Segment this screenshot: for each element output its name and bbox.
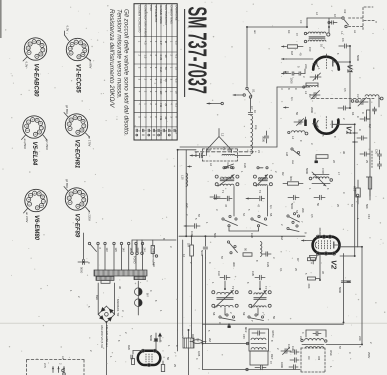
capacitor C4	[297, 66, 306, 75]
wire main AVC bus	[179, 235, 305, 237]
svg-text:47: 47	[224, 204, 228, 208]
svg-text:C2: C2	[343, 10, 347, 14]
wire V2 top pin	[320, 228, 344, 323]
capacitor C9	[338, 106, 350, 110]
power transformer secondary b	[134, 276, 146, 279]
svg-text:220: 220	[358, 336, 362, 341]
svg-text:g2 85V: g2 85V	[65, 179, 69, 188]
svg-text:5000: 5000	[290, 203, 294, 210]
svg-text:25: 25	[173, 364, 177, 367]
svg-text:0,1: 0,1	[175, 103, 179, 107]
V2 anode	[334, 242, 340, 249]
V4 pin circles	[142, 349, 157, 366]
table symbol row	[136, 129, 175, 136]
capacitor C33	[338, 281, 351, 294]
resistor R15 fuse	[353, 180, 361, 204]
svg-text:TM-220 V/50 Hz: TM-220 V/50 Hz	[105, 325, 109, 347]
svg-text:6 P: 6 P	[159, 41, 163, 45]
wire right vertical x356 bottom	[0, 0, 1, 1]
wire rod to choke	[235, 155, 251, 157]
arrow aux input	[207, 102, 223, 104]
svg-text:5000: 5000	[356, 55, 360, 61]
svg-text:50: 50	[175, 91, 179, 94]
svg-text:ant: ant	[253, 30, 257, 34]
detector lower box	[250, 351, 268, 365]
fuse resistor	[190, 340, 206, 344]
svg-text:140: 140	[122, 248, 126, 253]
svg-text:V1-ECC85: V1-ECC85	[74, 64, 80, 93]
svg-text:0,5: 0,5	[343, 88, 347, 92]
capacitor C6	[339, 38, 350, 48]
wire antenna feed top run	[247, 18, 342, 27]
svg-text:5000: 5000	[80, 267, 84, 274]
note: Tensioni misurate verso massa	[115, 9, 122, 99]
svg-text:an 220V: an 220V	[25, 212, 29, 223]
svg-text:C 25: C 25	[159, 55, 163, 61]
component value table	[134, 4, 177, 140]
svg-text:C: C	[361, 112, 365, 114]
capacitor C5	[290, 72, 300, 84]
capacitor C36	[255, 365, 266, 369]
svg-text:110: 110	[105, 248, 109, 253]
coil L10 vertical	[181, 173, 188, 187]
svg-text:L3: L3	[304, 91, 308, 95]
capacitor C31 vertical	[200, 236, 208, 258]
electrolytic blob	[304, 117, 308, 135]
capacitor C18 3000	[262, 131, 269, 143]
svg-text:3000: 3000	[262, 136, 266, 142]
svg-text:LAMPADINE: LAMPADINE	[175, 5, 179, 21]
arrow mid right a	[284, 71, 289, 73]
svg-text:Y: Y	[250, 320, 254, 322]
arrow marker output	[158, 333, 162, 343]
RF choke vertical	[251, 116, 253, 154]
svg-text:4700: 4700	[321, 168, 325, 174]
svg-text:imp: imp	[254, 125, 258, 130]
svg-text:S10: S10	[152, 262, 156, 267]
scan crease line	[0, 322, 387, 324]
arrow L10 top	[188, 165, 192, 167]
svg-text:0,5: 0,5	[310, 214, 314, 218]
resistor R14	[283, 176, 303, 185]
svg-text:25: 25	[365, 160, 369, 163]
svg-text:MF2: MF2	[244, 327, 248, 333]
wire T2b down	[257, 308, 259, 315]
svg-text:50: 50	[164, 67, 168, 70]
V2 cathode	[315, 242, 317, 248]
svg-text:an 250V: an 250V	[23, 139, 27, 150]
label cambiotensioni	[152, 246, 158, 266]
svg-text:4,5: 4,5	[143, 41, 147, 45]
svg-text:C6: C6	[341, 38, 345, 42]
label V1 (second half)	[345, 126, 352, 135]
svg-text:g2 85V: g2 85V	[65, 105, 69, 114]
bridge rectifier B1	[98, 283, 114, 375]
capacitor C15	[210, 195, 220, 199]
svg-text:0,1: 0,1	[279, 268, 283, 272]
svg-text:an 170V: an 170V	[88, 136, 92, 147]
antenna triangle stubs	[207, 150, 232, 156]
wave band switch S6	[287, 213, 300, 224]
tube socket V1-ECC85	[66, 38, 88, 93]
svg-text:30: 30	[164, 55, 168, 58]
svg-text:S6: S6	[295, 210, 299, 214]
IF transformer T1b	[253, 175, 272, 187]
switch S1	[246, 87, 256, 98]
phono connector stubs	[131, 240, 176, 264]
coil L12 vertical	[260, 242, 262, 257]
coil L2 antenna secondary	[304, 40, 326, 43]
core lines L1/L2	[309, 37, 325, 38]
capacitor C39	[290, 350, 299, 354]
more tiny annotations	[69, 12, 375, 368]
wire S1 down	[250, 98, 252, 112]
svg-text:AM: AM	[285, 152, 289, 156]
svg-text:SM 737-7037: SM 737-7037	[182, 7, 210, 94]
svg-text:DET: DET	[270, 354, 274, 360]
IF transformer T2b	[249, 290, 271, 308]
V1b cathode	[313, 121, 319, 128]
svg-text:ELETTROLITICI: ELETTROLITICI	[164, 5, 168, 25]
capacitor C50 right margin	[375, 149, 382, 160]
svg-text:OM: OM	[317, 356, 321, 360]
svg-text:50: 50	[295, 112, 299, 115]
svg-text:S8: S8	[212, 312, 216, 316]
svg-text:40: 40	[299, 53, 303, 56]
svg-text:C37: C37	[287, 344, 291, 349]
switch S6b	[287, 225, 299, 232]
resistor R1	[288, 45, 304, 56]
capacitor C34 above T2a	[220, 275, 230, 289]
svg-text:C39: C39	[291, 346, 295, 351]
resistor R8 vertical	[187, 236, 194, 330]
V1a cathode	[313, 60, 319, 67]
svg-text:V2: V2	[330, 260, 339, 270]
svg-text:OSC: OSC	[329, 350, 333, 356]
label mains TM	[105, 325, 109, 347]
svg-text:+: +	[133, 283, 137, 285]
svg-text:Z=5: Z=5	[43, 363, 47, 368]
svg-text:AVC: AVC	[185, 203, 189, 208]
switch S7	[227, 241, 237, 254]
label mains AM	[100, 325, 104, 348]
note: Resistenza dello strumento 20 KOhm/V	[108, 9, 115, 108]
svg-text:1000: 1000	[280, 362, 284, 368]
svg-text:C: C	[358, 129, 362, 131]
dashed external antenna connections	[349, 7, 379, 30]
arrow left V1b k	[353, 132, 358, 134]
svg-text:1,5: 1,5	[143, 55, 147, 59]
svg-text:L6: L6	[209, 163, 213, 166]
power transformer primary	[94, 270, 147, 276]
switch S9	[248, 314, 264, 321]
capacitor C40	[290, 358, 299, 362]
svg-text:C: C	[348, 352, 352, 354]
IF transformer T1a	[215, 175, 239, 187]
table data texts	[137, 41, 178, 136]
tube V1b envelope	[314, 120, 338, 134]
tuning shaft pins	[351, 99, 370, 201]
svg-text:12: 12	[221, 133, 225, 137]
svg-text:L4: L4	[291, 136, 295, 140]
wire T2a down	[224, 308, 226, 315]
svg-text:CAMBIO TENS.: CAMBIO TENS.	[169, 5, 173, 24]
svg-text:CONDENSATORI VARIAB.: CONDENSATORI VARIAB.	[143, 5, 147, 38]
IF transformer T2a	[212, 290, 238, 308]
resistor R6 vertical	[365, 176, 372, 196]
svg-text:AP: AP	[61, 356, 65, 360]
electrolytic trapezoid	[309, 256, 317, 265]
wire mains cap up	[83, 233, 85, 260]
svg-text:+: +	[309, 262, 313, 264]
detector secondary coil	[251, 348, 266, 350]
svg-text:C29: C29	[266, 262, 270, 267]
V2 input arrow	[302, 239, 313, 241]
svg-text:g2 250V: g2 250V	[45, 140, 49, 151]
capacitor C13	[360, 152, 370, 156]
wire AVC bus	[185, 150, 187, 236]
svg-text:1M: 1M	[187, 243, 191, 248]
svg-text:5000: 5000	[200, 250, 204, 257]
svg-text:5000: 5000	[149, 335, 153, 341]
svg-text:C50: C50	[375, 149, 379, 155]
svg-text:B30: B30	[95, 295, 99, 300]
V4 left components	[131, 351, 143, 365]
svg-text:OC: OC	[307, 356, 311, 360]
svg-text:T2: T2	[258, 190, 262, 194]
capacitor C17	[314, 195, 325, 206]
wire V2 anode out	[326, 247, 362, 345]
svg-text:0,05: 0,05	[197, 351, 201, 357]
svg-text:0,1: 0,1	[175, 55, 179, 59]
wire right vertical x364	[302, 343, 305, 345]
svg-text:0,1: 0,1	[269, 205, 273, 209]
svg-text:C20: C20	[243, 163, 247, 168]
svg-text:S5: S5	[269, 213, 273, 217]
svg-text:an 220V: an 220V	[88, 211, 92, 222]
svg-text:25: 25	[175, 67, 179, 70]
tube socket V6-EM80	[25, 189, 47, 240]
ferrite rod core	[195, 151, 256, 153]
wire top detector link	[203, 324, 344, 328]
rectifier diode D1	[133, 281, 142, 296]
V2 grids	[319, 241, 331, 251]
wire switch row link	[229, 228, 259, 232]
svg-text:30: 30	[118, 286, 122, 289]
svg-text:R20: R20	[127, 345, 131, 350]
resistor R10 stub	[151, 240, 154, 254]
label V1 (first half)	[346, 65, 353, 74]
svg-text:R: R	[365, 176, 369, 178]
svg-text:an 85V: an 85V	[89, 60, 93, 69]
variable capacitor CV1	[310, 91, 320, 100]
capacitor C12	[357, 129, 367, 140]
svg-text:S1: S1	[252, 89, 256, 93]
svg-text:240: 240	[143, 248, 147, 253]
selector plate	[88, 242, 146, 270]
detector transformer T3	[249, 329, 269, 351]
svg-text:R2: R2	[281, 172, 285, 176]
variable capacitor CV2	[355, 98, 368, 107]
resistor R12	[307, 277, 320, 289]
svg-text:GAMME ONDE: GAMME ONDE	[159, 5, 163, 24]
capacitor C32	[262, 252, 271, 256]
arrow S1 wiper	[233, 94, 245, 96]
svg-text:osc: osc	[291, 160, 294, 165]
svg-text:AM-380 V/1,5 VA: AM-380 V/1,5 VA	[100, 325, 104, 348]
wire IF takeoff	[357, 194, 359, 247]
svg-text:6,3V~: 6,3V~	[25, 62, 29, 70]
tube V4 envelope	[138, 351, 161, 365]
socket annotation leads	[22, 26, 93, 223]
speaker terminals	[62, 369, 66, 375]
svg-text:X: X	[218, 322, 222, 324]
svg-text:Gli zoccoli delle valvole sono: Gli zoccoli delle valvole sono visti dal…	[123, 9, 130, 136]
trimmer contacts above T1b	[257, 167, 268, 169]
capacitor C7	[248, 110, 257, 114]
svg-text:300: 300	[232, 262, 236, 267]
svg-text:50: 50	[166, 357, 170, 360]
tuning gang dashed link	[312, 98, 374, 100]
svg-text:T1: T1	[221, 190, 225, 194]
switch S8	[219, 314, 235, 321]
capacitor C51 right margin	[377, 161, 381, 169]
capacitor C38	[289, 365, 298, 369]
capacitor C25 with ground arrow	[246, 196, 265, 207]
svg-text:ELEMENTI CIRCUITO: ELEMENTI CIRCUITO	[137, 5, 141, 32]
svg-text:O.M.: O.M.	[159, 67, 163, 73]
terminal pin top coil	[327, 27, 330, 36]
svg-text:L9: L9	[299, 336, 303, 339]
svg-text:V1: V1	[345, 126, 352, 135]
tube V2 envelope	[313, 237, 340, 254]
resistor R17 mains	[101, 280, 110, 283]
svg-text:C34: C34	[217, 271, 221, 276]
diode arrows	[154, 333, 158, 351]
wire det left verticals	[203, 255, 301, 371]
coil L4	[288, 131, 305, 140]
oscillator coil L8	[309, 172, 332, 186]
wave band switch S4	[222, 215, 238, 227]
svg-text:C45: C45	[242, 334, 246, 339]
resistor R5 vertical	[367, 110, 370, 119]
coil L1 antenna primary	[304, 32, 326, 35]
wire grid arrow	[282, 58, 314, 60]
svg-text:C19: C19	[194, 152, 198, 157]
svg-text:PILA: PILA	[149, 5, 153, 11]
svg-text:R15: R15	[353, 186, 357, 192]
trimmer C10	[294, 119, 304, 126]
L9 dashed shield box	[301, 348, 325, 372]
label transformer	[116, 299, 120, 317]
svg-text:5000: 5000	[305, 168, 309, 174]
V1a grid dashes	[326, 54, 328, 69]
wire antenna feed vertical	[246, 27, 248, 87]
switch S2 antenna selector	[342, 10, 349, 28]
svg-text:50: 50	[316, 203, 320, 207]
svg-text:C44: C44	[367, 214, 371, 219]
svg-text:30K: 30K	[289, 176, 293, 181]
speaker dashed box	[27, 360, 84, 375]
svg-text:C: C	[87, 262, 91, 264]
svg-text:C: C	[356, 116, 360, 118]
capacitor C41 mains	[78, 260, 88, 274]
svg-text:R18: R18	[191, 334, 195, 339]
antenna symbol	[207, 129, 232, 151]
V1b grid dashes	[325, 117, 327, 130]
tuning section right cluster	[365, 95, 383, 114]
wire shield box top	[180, 87, 310, 147]
svg-text:Tensioni misurate verso massa.: Tensioni misurate verso massa.	[115, 9, 122, 99]
V1b anode	[332, 121, 355, 129]
resistor R11	[308, 258, 316, 261]
svg-text:C: C	[185, 214, 189, 216]
scan left edge artifact	[0, 0, 2, 38]
svg-text:V2-ECH81: V2-ECH81	[73, 140, 79, 169]
svg-text:C28: C28	[250, 233, 254, 238]
svg-text:1000: 1000	[290, 78, 294, 85]
svg-text:R7: R7	[296, 258, 300, 262]
svg-text:250V: 250V	[367, 352, 371, 358]
tube socket V3-EF89	[65, 188, 87, 238]
svg-text:160: 160	[129, 248, 133, 253]
svg-text:25: 25	[164, 103, 168, 106]
V4 grids	[146, 354, 152, 362]
V1a anode	[333, 59, 350, 67]
wire T1b down	[267, 186, 269, 216]
capacitor C30 input	[184, 224, 200, 237]
tube socket V4-EABC80	[24, 38, 46, 97]
junction node C1	[328, 18, 337, 27]
svg-text:C3: C3	[299, 20, 303, 24]
tiny value annotations	[43, 32, 372, 369]
arrow mid right b	[284, 106, 289, 108]
wire mixer output right	[340, 124, 355, 256]
svg-text:10: 10	[253, 110, 257, 114]
svg-text:V6-EM80: V6-EM80	[33, 215, 39, 241]
resistor R9	[243, 248, 252, 256]
svg-text:50: 50	[244, 248, 248, 252]
trimmer contacts above T1a	[223, 163, 234, 169]
svg-text:6,3: 6,3	[175, 79, 179, 83]
svg-text:C7: C7	[250, 106, 254, 110]
svg-text:V4-EABC80: V4-EABC80	[32, 64, 38, 98]
resistor R16	[161, 361, 164, 372]
tube socket V5-EL84	[23, 116, 45, 166]
trimmer C37	[281, 348, 291, 355]
svg-text:20K: 20K	[307, 284, 311, 289]
wire cathode arrow	[282, 72, 292, 74]
svg-text:FE: FE	[222, 147, 226, 151]
svg-text:M30/62/1 TR: M30/62/1 TR	[116, 299, 120, 317]
svg-text:STRUMENTO: STRUMENTO	[154, 5, 158, 22]
svg-text:30: 30	[164, 116, 168, 119]
svg-text:O.C.: O.C.	[159, 79, 163, 85]
title SM 737-7037	[182, 7, 210, 94]
table header texts	[137, 5, 178, 38]
svg-text:R4: R4	[351, 112, 355, 116]
coil L5 on ferrite rod	[222, 154, 235, 155]
rectifier diode D2	[135, 293, 150, 315]
svg-text:220: 220	[304, 64, 308, 69]
resistor R13	[315, 155, 329, 163]
switch S3	[224, 164, 233, 169]
svg-text:467Kc: 467Kc	[271, 330, 275, 338]
label V2	[330, 260, 339, 270]
speaker pins	[52, 363, 65, 373]
svg-text:6,3V: 6,3V	[66, 26, 70, 32]
power transformer secondary a	[96, 276, 114, 280]
